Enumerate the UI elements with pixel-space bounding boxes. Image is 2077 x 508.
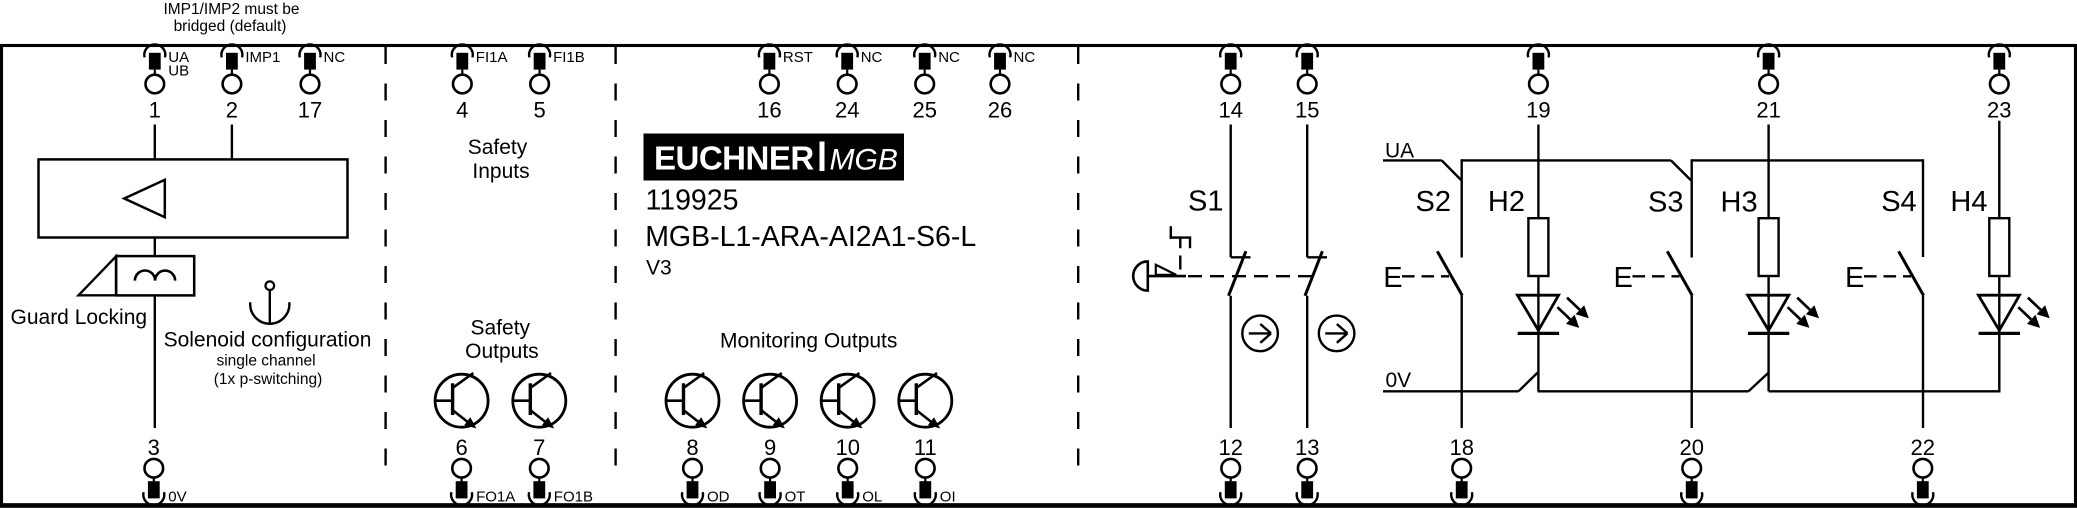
svg-text:Guard Locking: Guard Locking <box>11 306 148 329</box>
terminal 22 <box>1911 435 1935 505</box>
E dashed line to S3 <box>1633 275 1680 277</box>
terminal 4 (FI1A) <box>452 44 508 122</box>
wire resistor to LED H4 <box>1998 276 2000 330</box>
svg-text:26: 26 <box>988 97 1012 122</box>
svg-text:UA: UA <box>1385 139 1414 162</box>
wire terminal 23 to resistor <box>1998 121 2000 219</box>
terminal 13 <box>1295 435 1319 505</box>
svg-text:1: 1 <box>149 97 161 122</box>
terminal 3 (0V) <box>143 435 186 506</box>
transistor Q7 (FO1B) <box>513 373 566 428</box>
terminal 2 (IMP1) <box>221 44 280 122</box>
transistor Q6 (FO1A) <box>435 373 488 428</box>
resistor R4 <box>1989 218 2009 276</box>
wire terminal 2 to amplifier block <box>231 125 233 160</box>
LED H3 <box>1748 295 1819 333</box>
wire resistor to LED H2 <box>1537 276 1539 330</box>
terminal 9 (OT) <box>760 435 806 506</box>
terminal 11 (OI) <box>914 435 956 506</box>
svg-text:12: 12 <box>1218 435 1242 460</box>
amplifier triangle symbol <box>124 180 165 217</box>
0V rail segment 2 <box>1538 390 1749 392</box>
svg-text:6: 6 <box>455 435 467 460</box>
svg-text:21: 21 <box>1756 97 1780 122</box>
transistor Q10 (OL) <box>821 373 874 428</box>
svg-text:Inputs: Inputs <box>472 160 529 183</box>
wire S2 contact to terminal 18 <box>1460 296 1462 428</box>
amplifier block U1 <box>39 159 348 237</box>
wire terminal 15 to contact <box>1306 125 1308 258</box>
svg-text:Safety: Safety <box>471 317 531 340</box>
svg-text:NC: NC <box>861 49 883 66</box>
note IMP1/IMP2 must be bridged (default) <box>163 1 299 35</box>
wire UA rail to S2 contact <box>1460 159 1462 257</box>
svg-text:0V: 0V <box>168 489 186 506</box>
svg-text:25: 25 <box>912 97 936 122</box>
0V rail segment 1 <box>1383 390 1519 392</box>
dashed separator line 2 <box>614 47 616 470</box>
resistor R3 <box>1759 218 1779 276</box>
terminal 17 (NC) <box>298 44 346 122</box>
svg-text:Solenoid configuration: Solenoid configuration <box>164 329 372 352</box>
svg-text:OD: OD <box>707 489 730 506</box>
svg-text:14: 14 <box>1218 97 1242 122</box>
S1 mechanical linkage dashed line <box>1188 275 1316 277</box>
terminal 25 (NC) <box>912 44 960 122</box>
svg-text:20: 20 <box>1679 435 1703 460</box>
wire terminal 19 to resistor <box>1537 125 1539 219</box>
wire LED H2 to 0V rail <box>1537 330 1539 391</box>
terminal 21 <box>1756 44 1780 122</box>
S1 actuator linkage dash <box>1179 256 1181 270</box>
terminal 24 (NC) <box>835 44 883 122</box>
transistor Q11 (OI) <box>899 373 952 428</box>
E dashed line to S4 <box>1864 275 1911 277</box>
S1 actuator head (half disc) <box>1133 261 1148 290</box>
svg-text:NC: NC <box>324 49 346 66</box>
UA rail segment 2 <box>1462 159 1671 161</box>
svg-text:10: 10 <box>835 435 859 460</box>
svg-text:S3: S3 <box>1648 187 1683 219</box>
terminal 6 (FO1A) <box>451 435 515 506</box>
label Safety Outputs <box>465 317 539 364</box>
terminal 15 <box>1295 44 1319 122</box>
S1 actuator lever line <box>1148 275 1186 278</box>
UA rail segment 3 <box>1692 159 1923 161</box>
svg-text:Outputs: Outputs <box>465 340 539 363</box>
wire S4 contact to terminal 22 <box>1922 296 1924 428</box>
terminal 20 <box>1679 435 1703 505</box>
svg-text:24: 24 <box>835 97 859 122</box>
anchor symbol (solenoid configuration) <box>250 281 289 323</box>
svg-text:single channel: single channel <box>216 353 315 370</box>
terminal 10 (OL) <box>835 435 882 506</box>
svg-text:UB: UB <box>168 63 189 80</box>
svg-text:16: 16 <box>757 97 781 122</box>
svg-text:S1: S1 <box>1188 186 1223 218</box>
E dashed line to S2 <box>1402 275 1449 277</box>
transistor Q9 (OT) <box>744 373 797 428</box>
S1 contact 15-13 (NC) <box>1305 251 1327 296</box>
svg-text:18: 18 <box>1449 435 1473 460</box>
S2 contact (NO) <box>1437 251 1462 295</box>
dashed separator line 1 <box>384 47 386 470</box>
wire LED H4 to 0V rail corner <box>1998 330 2000 392</box>
svg-text:MGB: MGB <box>830 144 898 177</box>
terminal 14 <box>1218 44 1242 122</box>
dashed separator line 3 <box>1077 47 1079 470</box>
0V rail segment 3 <box>1769 390 2001 392</box>
svg-text:9: 9 <box>764 435 776 460</box>
svg-text:15: 15 <box>1295 97 1319 122</box>
actuation direction symbol (wire 13) <box>1319 316 1355 352</box>
wire UA rail to S3 contact <box>1690 159 1692 257</box>
svg-text:OT: OT <box>785 489 806 506</box>
S1 actuator wedge <box>1156 265 1176 275</box>
svg-text:23: 23 <box>1987 97 2011 122</box>
svg-text:22: 22 <box>1911 435 1935 460</box>
svg-text:Safety: Safety <box>468 136 528 159</box>
svg-text:E: E <box>1845 262 1864 294</box>
svg-text:bridged (default): bridged (default) <box>174 18 287 35</box>
svg-text:H2: H2 <box>1488 186 1525 218</box>
svg-text:8: 8 <box>686 435 698 460</box>
terminal 1 (UA/UB) <box>144 44 189 122</box>
terminal 7 (FO1B) <box>529 435 593 506</box>
svg-text:3: 3 <box>148 435 160 460</box>
wire S3 contact to terminal 20 <box>1690 296 1692 428</box>
guard locking wedge symbol <box>79 256 117 295</box>
svg-text:H3: H3 <box>1721 187 1758 219</box>
S3 contact (NO) <box>1667 251 1692 295</box>
0V rail diagonal from H3 <box>1749 373 1769 392</box>
svg-text:OL: OL <box>862 489 882 506</box>
UA rail diagonal into S3 <box>1671 160 1692 181</box>
actuation direction symbol (wire 12) <box>1242 316 1278 352</box>
svg-text:0V: 0V <box>1386 369 1412 392</box>
wire contact to terminal 12 <box>1229 296 1231 428</box>
UA rail diagonal into S2 <box>1442 160 1462 180</box>
guard locking solenoid L1 <box>116 256 194 295</box>
S1 actuator bracket symbol <box>1170 226 1192 248</box>
LED H4 <box>1978 295 2049 333</box>
svg-text:IMP1/IMP2 must be: IMP1/IMP2 must be <box>163 1 299 18</box>
terminal 26 (NC) <box>988 44 1036 122</box>
wire terminal 1 to amplifier block <box>154 125 156 160</box>
svg-text:13: 13 <box>1295 435 1319 460</box>
wire amplifier to guard locking solenoid <box>154 238 156 257</box>
label Safety Inputs <box>468 136 530 183</box>
svg-text:11: 11 <box>914 435 937 460</box>
svg-text:119925: 119925 <box>646 184 739 216</box>
0V rail diagonal from H2 <box>1519 373 1538 392</box>
terminal 18 <box>1449 435 1473 505</box>
svg-text:FO1B: FO1B <box>554 489 593 506</box>
wire UA rail corner to S4 contact <box>1922 159 1924 257</box>
svg-text:7: 7 <box>533 435 545 460</box>
svg-text:Monitoring Outputs: Monitoring Outputs <box>720 330 897 353</box>
wire contact to terminal 13 <box>1306 296 1308 428</box>
svg-text:FI1A: FI1A <box>476 49 508 66</box>
terminal 8 (OD) <box>682 435 730 506</box>
svg-text:4: 4 <box>456 97 468 122</box>
transistor Q8 (OD) <box>666 373 719 428</box>
wire terminal 21 to resistor <box>1767 125 1769 219</box>
svg-text:2: 2 <box>226 97 238 122</box>
terminal 5 (FI1B) <box>529 44 585 122</box>
svg-text:NC: NC <box>1014 49 1036 66</box>
wire resistor to LED H3 <box>1767 276 1769 330</box>
S4 contact (NO) <box>1899 251 1924 295</box>
svg-text:E: E <box>1614 262 1633 294</box>
wire solenoid to terminal 3 <box>154 295 156 428</box>
terminal 12 <box>1218 435 1242 505</box>
svg-text:FI1B: FI1B <box>553 49 585 66</box>
svg-text:5: 5 <box>533 97 545 122</box>
svg-text:EUCHNER: EUCHNER <box>654 140 814 177</box>
EUCHNER | MGB logo <box>644 134 905 181</box>
wire LED H3 to 0V rail <box>1767 330 1769 391</box>
S1 contact 14-12 (NC) <box>1229 251 1251 296</box>
svg-text:FO1A: FO1A <box>476 489 515 506</box>
svg-text:E: E <box>1383 262 1402 294</box>
svg-text:S2: S2 <box>1416 186 1451 218</box>
svg-text:NC: NC <box>938 49 960 66</box>
wire terminal 14 to contact <box>1229 125 1231 258</box>
svg-text:S4: S4 <box>1881 186 1916 218</box>
UA rail segment 1 <box>1383 159 1442 161</box>
svg-text:17: 17 <box>298 97 322 122</box>
svg-text:(1x p-switching): (1x p-switching) <box>214 371 323 388</box>
svg-text:IMP1: IMP1 <box>245 49 280 66</box>
terminal 23 <box>1987 44 2011 122</box>
terminal 19 <box>1526 44 1550 122</box>
terminal 16 (RST) <box>757 44 813 122</box>
svg-text:19: 19 <box>1526 97 1550 122</box>
resistor R2 <box>1528 218 1548 276</box>
svg-text:H4: H4 <box>1950 186 1987 218</box>
svg-text:RST: RST <box>783 49 813 66</box>
svg-text:OI: OI <box>940 489 956 506</box>
svg-text:V3: V3 <box>646 257 672 280</box>
svg-text:MGB-L1-ARA-AI2A1-S6-L: MGB-L1-ARA-AI2A1-S6-L <box>645 221 976 253</box>
LED H2 <box>1518 295 1589 333</box>
